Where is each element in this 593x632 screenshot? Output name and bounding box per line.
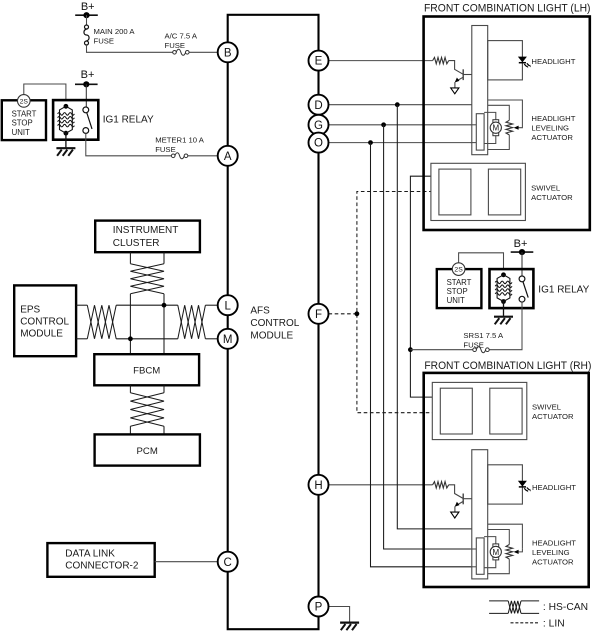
svg-text:FBCM: FBCM <box>133 366 160 377</box>
fuse METER1 10 A <box>171 153 187 159</box>
svg-text:IG1 RELAY: IG1 RELAY <box>538 285 589 296</box>
svg-text:M: M <box>492 548 499 557</box>
resistor <box>433 57 449 63</box>
IG1 relay box (right) <box>490 269 534 308</box>
headlight bulb box <box>488 465 523 504</box>
svg-text:HEADLIGHT: HEADLIGHT <box>532 483 576 492</box>
pin L <box>218 295 238 315</box>
svg-text:A: A <box>224 151 232 163</box>
wire pin G into LH light <box>329 124 472 126</box>
svg-text:E: E <box>315 56 323 68</box>
junction LIN at F <box>355 311 360 316</box>
wire potentiometer bottom to bar <box>488 135 510 150</box>
svg-text:B+: B+ <box>81 69 95 81</box>
wire motor bottom <box>484 136 496 144</box>
CAN L line EPS to pin M with twisted sections <box>76 338 87 340</box>
pin G <box>309 115 329 135</box>
transistor <box>449 485 472 518</box>
battery B+ (top) <box>75 1 98 18</box>
svg-text:B+: B+ <box>514 238 528 250</box>
battery B+ (left relay) <box>75 69 98 87</box>
ground (pin P) <box>340 623 359 631</box>
START STOP UNIT box (left) <box>2 100 46 140</box>
wire coil to ground (right) <box>503 302 505 316</box>
svg-text:HEADLIGHT: HEADLIGHT <box>531 57 575 66</box>
pin A <box>218 146 238 166</box>
motor M <box>490 544 501 560</box>
twisted pair instrument cluster to CAN bus <box>129 252 131 264</box>
HEADLIGHT LEVELING ACTUATOR label (LH) <box>531 114 575 142</box>
svg-text:CONTROL: CONTROL <box>20 316 69 327</box>
O branch to RH light <box>368 140 373 145</box>
METER1 10 A FUSE label <box>155 136 205 155</box>
svg-text:2S: 2S <box>20 98 29 105</box>
svg-text:A/C 7.5 A: A/C 7.5 A <box>165 31 198 40</box>
wire motor bottom <box>484 560 496 568</box>
wire relay switch through SRS1 fuse to swivel line <box>488 302 522 350</box>
CAN H line EPS to pin L with twisted sections <box>76 304 87 306</box>
twisted section 2 <box>178 305 206 339</box>
wire 2S to relay coil <box>24 84 66 100</box>
A/C 7.5 A FUSE label <box>165 31 198 50</box>
leveling connector rect <box>476 114 484 150</box>
twisted section 1 <box>87 305 116 339</box>
resistor <box>433 482 449 488</box>
wire bar to potentiometer top <box>488 105 510 120</box>
FRONT COMBINATION LIGHT (LH) box <box>424 17 590 231</box>
wire bar to leveling wiper <box>488 100 523 125</box>
headlight LED <box>519 57 531 68</box>
wire pin D into LH light <box>329 104 472 106</box>
leveling connector rect <box>476 538 484 574</box>
svg-text:P: P <box>315 602 323 614</box>
svg-text:CONNECTOR-2: CONNECTOR-2 <box>65 561 139 572</box>
pin O <box>309 133 329 153</box>
SWIVEL ACTUATOR label (RH) <box>532 403 574 422</box>
twisted pair FBCM to PCM <box>129 385 131 393</box>
FBCM box <box>94 354 199 385</box>
wire DLC-2 to pin C <box>155 561 218 563</box>
svg-text:M: M <box>492 124 499 133</box>
swivel coil 2 <box>488 169 520 215</box>
legend HS-CAN twisted pair <box>489 600 508 602</box>
wire O row over bar <box>471 142 477 144</box>
D branch to RH light <box>395 102 400 107</box>
svg-text:INSTRUMENT: INSTRUMENT <box>113 225 179 236</box>
svg-text:D: D <box>314 100 322 112</box>
wire pin O into LH light <box>329 142 472 144</box>
G branch to RH light <box>381 122 386 127</box>
fuse MAIN 200 A <box>84 25 89 45</box>
swivel actuator box <box>431 163 526 220</box>
relay coil (left) <box>64 104 69 109</box>
headlight bulb box <box>488 41 523 80</box>
svg-text:FUSE: FUSE <box>155 145 176 154</box>
wire bar to leveling wiper <box>488 524 523 549</box>
svg-text:HEADLIGHT: HEADLIGHT <box>532 538 576 547</box>
PCM box <box>95 434 200 465</box>
svg-text:START: START <box>12 110 37 119</box>
svg-text:FRONT COMBINATION LIGHT (LH): FRONT COMBINATION LIGHT (LH) <box>424 2 591 14</box>
START STOP UNIT box (right) <box>437 269 482 308</box>
wire bar to potentiometer top <box>488 530 510 545</box>
svg-text:ACTUATOR: ACTUATOR <box>531 193 573 202</box>
svg-text:B+: B+ <box>81 1 95 13</box>
FRONT COMBINATION LIGHT (RH) box <box>424 373 589 587</box>
connector 2S (left) <box>18 95 31 108</box>
wire B+ to MAIN fuse <box>86 15 88 25</box>
swivel power line LH to RH <box>410 176 439 397</box>
junction CAN L <box>128 336 133 341</box>
svg-text:SRS1 7.5 A: SRS1 7.5 A <box>463 331 504 340</box>
wire G row over bar <box>471 548 477 550</box>
wiper arrow <box>517 125 522 128</box>
svg-text:SWIVEL: SWIVEL <box>531 184 561 193</box>
wire B+ into relay switch (right) <box>521 252 523 276</box>
ground (left relay) <box>56 148 75 156</box>
wire motor top <box>484 537 496 545</box>
svg-text:LEVELING: LEVELING <box>532 548 570 557</box>
wire pin E to LH headlight driver <box>329 60 433 62</box>
svg-text:FUSE: FUSE <box>463 341 484 350</box>
pin P <box>309 597 329 617</box>
EPS CONTROL MODULE box <box>14 285 76 356</box>
motor M <box>490 120 501 136</box>
pin C <box>218 552 238 572</box>
fuse A/C 7.5 A <box>173 49 189 55</box>
connector bar <box>472 450 488 579</box>
wire B+ into relay switch <box>85 84 87 107</box>
MAIN 200 A FUSE label <box>94 27 136 46</box>
LIN bus dashed F to swivel actuators <box>329 313 357 315</box>
potentiometer <box>506 545 513 560</box>
svg-text:ACTUATOR: ACTUATOR <box>532 557 574 566</box>
AFS control module outline <box>228 15 319 629</box>
svg-text:B: B <box>224 47 232 59</box>
wire relay switch to METER1 fuse to pin A <box>86 133 173 155</box>
svg-text:H: H <box>314 480 322 492</box>
svg-text:PCM: PCM <box>137 446 158 457</box>
svg-text:MAIN 200 A: MAIN 200 A <box>94 27 136 36</box>
svg-text:MODULE: MODULE <box>250 330 293 341</box>
junction CAN H <box>162 303 167 308</box>
svg-text:FUSE: FUSE <box>165 41 186 50</box>
svg-text:METER1 10 A: METER1 10 A <box>155 136 205 145</box>
potentiometer <box>506 120 513 135</box>
svg-text:FUSE: FUSE <box>94 36 115 45</box>
DATA LINK CONNECTOR-2 box <box>47 543 154 577</box>
swivel coil 1 <box>440 388 472 434</box>
wire coil to ground <box>65 133 67 147</box>
battery B+ (right relay) <box>511 238 534 255</box>
relay coil (right) <box>501 272 506 277</box>
IG1 relay box (left) <box>53 100 98 140</box>
pin D <box>309 95 329 115</box>
svg-text:: LIN: : LIN <box>543 619 565 630</box>
wire O row over bar <box>471 566 477 568</box>
INSTRUMENT CLUSTER box <box>95 221 200 253</box>
svg-text:DATA LINK: DATA LINK <box>65 549 115 560</box>
wire pin H to RH headlight driver <box>329 484 433 486</box>
wire motor top <box>484 112 496 120</box>
junction swivel power / SRS1 feed <box>408 347 413 352</box>
SWIVEL ACTUATOR label (LH) <box>531 184 573 203</box>
HEADLIGHT LEVELING ACTUATOR label (RH) <box>532 538 576 566</box>
svg-text:2S: 2S <box>454 267 463 274</box>
swivel actuator box <box>432 382 527 439</box>
pin H <box>309 475 329 495</box>
svg-text:CONTROL: CONTROL <box>250 318 299 329</box>
svg-text:UNIT: UNIT <box>12 128 30 137</box>
ground (right relay) <box>494 317 513 325</box>
pin B <box>218 42 238 62</box>
svg-text:LEVELING: LEVELING <box>531 124 569 133</box>
svg-text:UNIT: UNIT <box>447 296 465 305</box>
svg-text:STOP: STOP <box>12 119 33 128</box>
svg-text:STOP: STOP <box>447 287 468 296</box>
swivel coil 2 <box>490 388 522 434</box>
svg-text:START: START <box>447 278 472 287</box>
wire G row over bar <box>471 124 477 126</box>
wire 2S to relay coil (right) <box>459 253 504 269</box>
svg-text:ACTUATOR: ACTUATOR <box>532 412 574 421</box>
fuse SRS1 7.5 A <box>473 347 489 353</box>
svg-text:L: L <box>224 300 231 312</box>
svg-text:M: M <box>223 334 233 346</box>
svg-text:: HS-CAN: : HS-CAN <box>543 602 588 613</box>
svg-text:FRONT COMBINATION LIGHT (RH): FRONT COMBINATION LIGHT (RH) <box>424 360 591 372</box>
svg-text:MODULE: MODULE <box>20 328 63 339</box>
svg-text:O: O <box>314 138 323 150</box>
AFS CONTROL MODULE label <box>250 306 299 342</box>
svg-text:G: G <box>314 120 323 132</box>
svg-text:SWIVEL: SWIVEL <box>532 403 562 412</box>
svg-text:AFS: AFS <box>250 306 270 317</box>
svg-text:C: C <box>224 557 232 569</box>
svg-text:F: F <box>315 309 322 321</box>
svg-text:HEADLIGHT: HEADLIGHT <box>531 114 575 123</box>
transistor <box>449 61 472 94</box>
connector bar <box>472 26 488 155</box>
relay switch (left) <box>83 107 92 133</box>
wiper arrow <box>517 549 522 552</box>
svg-text:CLUSTER: CLUSTER <box>113 238 160 249</box>
pin M <box>218 329 238 349</box>
headlight LED <box>519 481 531 492</box>
relay switch (right) <box>519 276 528 302</box>
wire potentiometer bottom to bar <box>488 559 510 574</box>
connector 2S (right) <box>452 263 465 276</box>
swivel coil 1 <box>439 169 471 215</box>
legend LIN dashed line <box>511 622 539 624</box>
wire pin P to ground <box>329 607 350 623</box>
pin F <box>309 304 329 324</box>
svg-text:IG1 RELAY: IG1 RELAY <box>103 115 154 126</box>
pin E <box>309 51 329 71</box>
svg-text:ACTUATOR: ACTUATOR <box>531 133 573 142</box>
wire MAIN fuse to A/C fuse to pin B <box>87 45 175 52</box>
SRS1 7.5 A FUSE label <box>463 331 504 350</box>
svg-text:EPS: EPS <box>20 304 40 315</box>
